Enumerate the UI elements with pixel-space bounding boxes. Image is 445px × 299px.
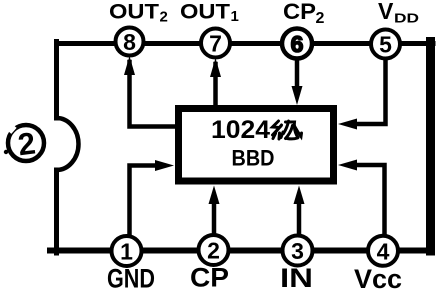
arrowhead into pin 8 xyxy=(124,56,135,75)
wire pin 5 to BBD box right side xyxy=(352,59,386,124)
svg-text:6: 6 xyxy=(291,31,304,57)
arrowhead into box from pin 3 xyxy=(294,186,305,205)
arrowhead into box from pin 6 xyxy=(292,86,303,105)
package outline left edge upper segment xyxy=(54,42,59,119)
wire pin 8 to BBD box left side xyxy=(130,62,176,127)
label VDD (pin 5) xyxy=(378,0,419,26)
svg-text:Vcc: Vcc xyxy=(354,264,402,294)
package outline top edge xyxy=(57,41,433,46)
pin 8 xyxy=(116,28,144,56)
svg-text:5: 5 xyxy=(379,32,392,58)
label OUT1 (pin 7) xyxy=(180,1,239,26)
svg-text:V: V xyxy=(378,0,394,24)
wire pin 1 to BBD box left side xyxy=(130,166,159,235)
svg-text:IN: IN xyxy=(280,263,313,293)
svg-text:2: 2 xyxy=(160,9,168,26)
svg-text:OUT: OUT xyxy=(180,1,230,24)
svg-text:4: 4 xyxy=(377,238,390,264)
label CP2 (pin 6) xyxy=(283,0,325,27)
svg-text:7: 7 xyxy=(209,31,222,57)
pin 6 xyxy=(282,29,312,59)
pin 4 xyxy=(368,236,398,266)
ink speck left of figure number xyxy=(4,150,8,154)
svg-text:2: 2 xyxy=(207,238,220,264)
pin 2 xyxy=(199,235,229,265)
label OUT2 (pin 8) xyxy=(109,1,168,26)
package outline left edge notch xyxy=(57,118,79,170)
BBD block U1 xyxy=(179,109,334,182)
wire pin 7 to BBD box top xyxy=(213,64,218,105)
pin 1 xyxy=(112,236,142,266)
package outline bottom edge xyxy=(50,248,430,254)
arrowhead into box from pin 4 xyxy=(338,160,357,171)
wire pin 3 into BBD box bottom xyxy=(297,199,302,234)
svg-text:GND: GND xyxy=(107,264,155,294)
svg-text:3: 3 xyxy=(291,238,304,264)
arrowhead into pin 7 xyxy=(210,58,221,77)
wire pin 2 into BBD box bottom xyxy=(212,199,217,234)
svg-text:OUT: OUT xyxy=(109,1,159,24)
svg-text:DD: DD xyxy=(394,11,419,26)
svg-text:8: 8 xyxy=(123,29,136,55)
svg-text:2: 2 xyxy=(316,10,325,27)
arrowhead into box from pin 2 xyxy=(209,186,220,205)
kanji 級 (stage) drawn as strokes xyxy=(273,121,302,139)
svg-text:1: 1 xyxy=(231,8,239,25)
package outline right edge xyxy=(426,42,435,252)
package outline left edge lower segment xyxy=(54,170,59,253)
svg-text:CP: CP xyxy=(283,0,316,24)
wire pin 6 into BBD box top xyxy=(295,59,300,92)
pin 3 xyxy=(283,236,313,266)
arrowhead into box from pin 5 xyxy=(338,119,357,130)
arrowhead into box from pin 1 xyxy=(155,160,174,171)
svg-text:1: 1 xyxy=(120,239,133,265)
svg-text:1024: 1024 xyxy=(211,116,270,144)
svg-text:CP: CP xyxy=(190,263,229,293)
wire pin 4 to BBD box right side xyxy=(352,165,385,234)
pin 5 xyxy=(371,30,400,59)
figure number 2 (circled) xyxy=(6,124,44,163)
svg-text:BBD: BBD xyxy=(232,146,275,171)
svg-text:2: 2 xyxy=(16,126,37,163)
pin 7 xyxy=(201,29,230,58)
